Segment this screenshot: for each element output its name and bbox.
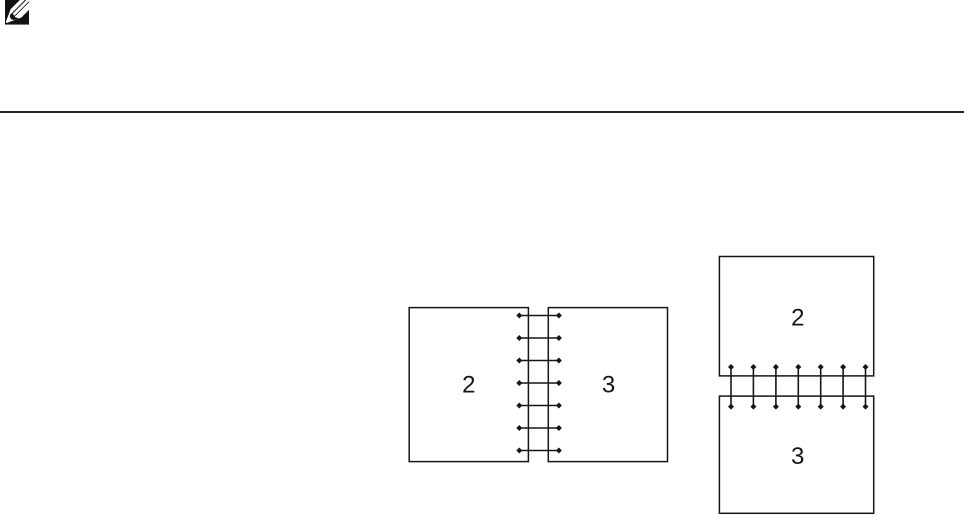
left diagram: staple 4 <box>516 380 562 386</box>
svg-text:2: 2 <box>791 304 804 331</box>
right diagram: staple 3 <box>773 364 779 410</box>
left diagram: staple 5 <box>516 403 562 409</box>
horizontal rule <box>0 111 964 113</box>
left diagram: page 2 label <box>462 372 475 399</box>
right diagram: page 2 label <box>791 304 804 331</box>
left diagram: staple 3 <box>516 358 562 364</box>
left diagram: page 3 rectangle <box>548 308 667 462</box>
svg-text:2: 2 <box>462 372 475 399</box>
right diagram: staple 1 <box>728 364 734 410</box>
right diagram: page 2 rectangle <box>719 257 873 376</box>
right diagram: staple 7 <box>863 364 869 410</box>
note icon (black square with white pencil) <box>5 0 29 25</box>
left diagram: page 2 rectangle <box>409 308 528 462</box>
svg-text:3: 3 <box>602 372 615 399</box>
right diagram: staple 5 <box>818 364 824 410</box>
left diagram: staple 7 <box>516 448 562 454</box>
right diagram: staple 2 <box>750 364 756 410</box>
right diagram: staple 6 <box>840 364 846 410</box>
right diagram: staple 4 <box>795 364 801 410</box>
left diagram: page 3 label <box>602 372 615 399</box>
left diagram: staple 1 <box>516 313 562 319</box>
svg-text:3: 3 <box>791 443 804 470</box>
right diagram: page 3 rectangle <box>719 396 873 513</box>
right diagram: page 3 label <box>791 443 804 470</box>
left diagram: staple 2 <box>516 335 562 341</box>
left diagram: staple 6 <box>516 425 562 431</box>
